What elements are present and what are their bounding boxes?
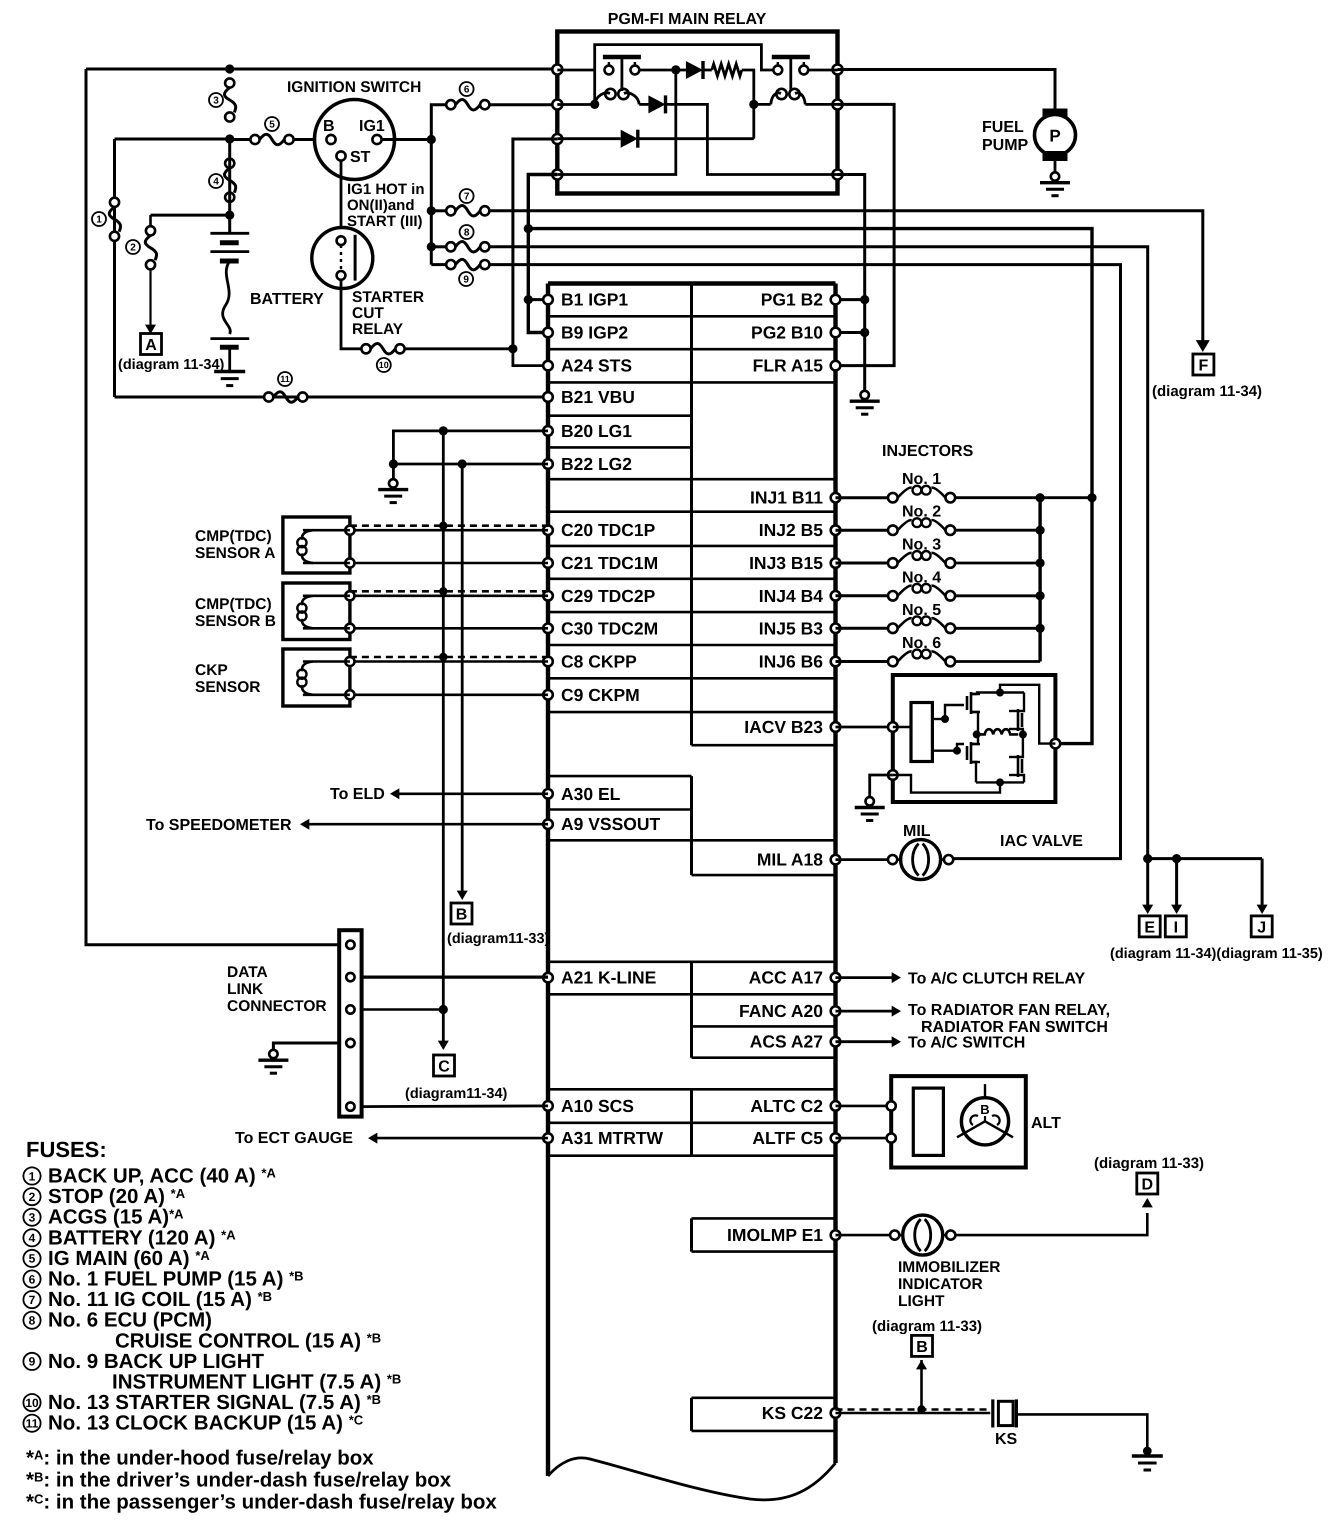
pin ALTC C2 <box>831 1101 841 1111</box>
svg-text:A10 SCS: A10 SCS <box>561 1096 634 1116</box>
svg-text:B: B <box>916 1339 928 1356</box>
svg-text:RADIATOR FAN SWITCH: RADIATOR FAN SWITCH <box>921 1019 1108 1036</box>
svg-text:9: 9 <box>463 275 469 286</box>
svg-text:INDICATOR: INDICATOR <box>898 1276 983 1293</box>
diode D3 <box>557 137 620 140</box>
IAC internal wiring <box>893 726 911 729</box>
svg-text:9: 9 <box>29 1355 36 1369</box>
IAC bridge rails <box>976 691 1024 693</box>
svg-text:No. 9 BACK UP LIGHT: No. 9 BACK UP LIGHT <box>48 1350 264 1373</box>
junction E feed <box>1143 854 1152 863</box>
wire fuse9 to MIL feed <box>490 265 1121 859</box>
IAC winding <box>911 703 932 762</box>
wire sensor signal <box>355 660 549 663</box>
ignition switch <box>315 100 395 180</box>
pin B9 IGP2 <box>543 328 553 338</box>
svg-text:To SPEEDOMETER: To SPEEDOMETER <box>146 817 292 834</box>
svg-text:E: E <box>1144 919 1155 936</box>
fuse 4 BATTERY <box>225 159 234 168</box>
svg-text:A30 EL: A30 EL <box>561 784 621 804</box>
DLC pin <box>346 1039 354 1047</box>
junction ignition feed <box>225 134 234 143</box>
connector B to diagram 11-33 <box>451 903 472 924</box>
svg-text:KS: KS <box>995 1431 1018 1448</box>
svg-text:INJ6 B6: INJ6 B6 <box>759 652 823 672</box>
svg-text:MIL: MIL <box>903 823 931 840</box>
svg-text:INSTRUMENT LIGHT (7.5 A) *B: INSTRUMENT LIGHT (7.5 A) *B <box>112 1371 401 1394</box>
svg-text:No. 13 CLOCK BACKUP (15 A) *C: No. 13 CLOCK BACKUP (15 A) *C <box>48 1412 364 1435</box>
wire DLC pin3 to C branch <box>362 1008 444 1011</box>
vertical fuse column <box>430 140 433 265</box>
relay node left 3 <box>552 134 562 144</box>
node ALTF <box>887 1134 896 1143</box>
svg-text:No. 11 IG COIL (15 A) *B: No. 11 IG COIL (15 A) *B <box>48 1288 272 1311</box>
wire ALTF C5 <box>836 1137 892 1140</box>
pin INJ3 B15 <box>831 558 841 568</box>
svg-text:BATTERY: BATTERY <box>250 291 324 308</box>
fuel pump <box>1044 110 1066 118</box>
svg-text:6: 6 <box>464 85 470 96</box>
junction PG2 <box>860 328 869 337</box>
svg-text:CRUISE CONTROL (15 A) *B: CRUISE CONTROL (15 A) *B <box>115 1329 381 1352</box>
junction PG1 <box>860 295 869 304</box>
wire FANC A20 to radiator fan relay <box>836 1010 897 1013</box>
junction relay top <box>671 65 680 74</box>
wire KS to ground <box>1018 1414 1147 1448</box>
fuse 6 FUEL PUMP <box>431 105 445 140</box>
svg-text:11: 11 <box>26 1417 39 1431</box>
wire KS C22 shield <box>836 1408 991 1411</box>
pin A24 STS <box>543 361 553 371</box>
svg-text:(diagram 11-33): (diagram 11-33) <box>872 1318 982 1335</box>
pin C30 TDC2M <box>543 624 553 634</box>
svg-text:IGNITION SWITCH: IGNITION SWITCH <box>287 79 421 96</box>
svg-text:INJ1 B11: INJ1 B11 <box>750 488 823 508</box>
svg-text:ON(II)and: ON(II)and <box>347 197 415 214</box>
ALT regulator <box>913 1088 943 1155</box>
svg-text:STARTER: STARTER <box>352 289 424 306</box>
junction injector No1 <box>1087 493 1096 502</box>
IAC transistor Q2 <box>966 746 969 760</box>
fuse list item IG MAIN (60 A) <box>23 1250 40 1267</box>
connector A to diagram 11-34 <box>141 334 162 355</box>
svg-text:A21 K-LINE: A21 K-LINE <box>561 968 656 988</box>
junction shield drain <box>439 522 447 530</box>
pin IMOLMP E1 <box>831 1230 841 1240</box>
junction IG1 fuse column <box>427 135 436 144</box>
pin A21 K-LINE <box>543 973 553 983</box>
svg-text:No. 5: No. 5 <box>902 602 941 619</box>
svg-text:(diagram11-34): (diagram11-34) <box>405 1086 508 1102</box>
svg-text:No. 13 STARTER SIGNAL (7.5 A): No. 13 STARTER SIGNAL (7.5 A) *B <box>48 1391 381 1414</box>
junction injector bus <box>1036 526 1045 535</box>
wire resistor to coil 2 <box>742 70 754 139</box>
wire A31 MTRTW to ECT gauge <box>372 1137 548 1140</box>
diode D1 <box>639 103 648 106</box>
ground KS <box>1143 1447 1152 1456</box>
wire fuse5 to ignition B terminal <box>294 138 327 141</box>
wire E arrow <box>1146 859 1149 908</box>
diode D2 <box>676 69 686 72</box>
svg-text:INJ2 B5: INJ2 B5 <box>759 520 823 540</box>
wire top supply rail <box>86 68 557 71</box>
wire KS shield to B <box>920 1360 923 1410</box>
ground fuel pump <box>1054 160 1057 173</box>
fuse list item No. 6 ECU (PCM) <box>23 1312 40 1329</box>
junction battery top <box>225 211 234 220</box>
svg-text:C: C <box>438 1059 450 1076</box>
pin KS C22 <box>831 1408 841 1418</box>
wire A30 EL to ELD <box>394 792 548 795</box>
svg-text:ACC A17: ACC A17 <box>749 968 823 988</box>
battery symbol <box>228 215 231 233</box>
junction injector bus <box>1036 624 1045 633</box>
svg-text:INJ4 B4: INJ4 B4 <box>759 586 823 606</box>
junction A24 feed <box>508 344 517 353</box>
svg-text:PG2 B10: PG2 B10 <box>751 323 823 343</box>
fuse list item No. 11 IG COIL (15 A) <box>23 1291 40 1308</box>
svg-text:A: A <box>145 337 157 354</box>
svg-text:LIGHT: LIGHT <box>898 1293 945 1310</box>
wire ACC A17 to AC clutch relay <box>836 976 897 979</box>
node IACV supply <box>888 770 898 780</box>
wire battery junction to fuse 2 branch <box>151 214 230 217</box>
svg-text:ACGS (15 A)*A: ACGS (15 A)*A <box>48 1206 184 1229</box>
pin INJ5 B3 <box>831 624 841 634</box>
junction fuse8 <box>427 242 436 251</box>
wire lamp to D connector <box>956 1213 1148 1235</box>
fuse list item No. 13 CLOCK BACKUP (15 A) <box>23 1415 40 1432</box>
junction injector bus <box>1036 591 1045 600</box>
IAC transistor Q3 <box>1021 713 1024 727</box>
svg-text:PUMP: PUMP <box>982 137 1029 154</box>
svg-text:B22 LG2: B22 LG2 <box>561 454 632 474</box>
pin INJ4 B4 <box>831 591 841 601</box>
wire D3 output <box>638 137 754 140</box>
wire relay to power ground <box>838 175 865 392</box>
junction I feed <box>1172 854 1181 863</box>
svg-text:C9 CKPM: C9 CKPM <box>561 685 640 705</box>
svg-text:PGM-FI MAIN RELAY: PGM-FI MAIN RELAY <box>608 11 767 28</box>
pin ACC A17 <box>831 973 841 983</box>
svg-text:IG1: IG1 <box>359 118 385 135</box>
injector common bus <box>1038 498 1041 662</box>
relay coil 1 <box>557 103 594 106</box>
pin B21 VBU <box>543 392 553 402</box>
svg-text:No. 4: No. 4 <box>902 569 941 586</box>
fuse 1 BACK UP ACC <box>110 198 119 207</box>
pin B20 LG1 <box>543 426 553 436</box>
PGM-FI main relay box <box>557 32 837 194</box>
fuse 2 STOP <box>149 215 152 226</box>
svg-text:STOP (20 A) *A: STOP (20 A) *A <box>48 1185 186 1208</box>
relay node left 2 <box>552 100 562 110</box>
svg-text:IMMOBILIZER: IMMOBILIZER <box>898 1259 1000 1276</box>
svg-text:IMOLMP E1: IMOLMP E1 <box>727 1225 823 1245</box>
svg-text:3: 3 <box>29 1211 36 1225</box>
svg-text:10: 10 <box>25 1396 39 1410</box>
ground IAC <box>870 775 893 797</box>
node ALTC <box>887 1101 896 1110</box>
connector F to diagram 11-34 <box>1193 354 1214 375</box>
relay node left 4 <box>552 170 562 180</box>
DLC pin <box>346 973 354 981</box>
wire DLC pin2 to A21 K-LINE <box>362 975 548 978</box>
data link connector box <box>339 930 361 1116</box>
svg-text:ACS A27: ACS A27 <box>750 1032 823 1052</box>
svg-text:C29 TDC2P: C29 TDC2P <box>561 586 656 606</box>
svg-text:4: 4 <box>29 1231 36 1245</box>
connector I to diagram 11-34 <box>1165 916 1186 937</box>
pin ALTF C5 <box>831 1133 841 1143</box>
svg-text:MIL A18: MIL A18 <box>757 850 823 870</box>
svg-text:INJ3 B15: INJ3 B15 <box>749 553 823 573</box>
svg-text:(diagram 11-34): (diagram 11-34) <box>118 357 225 373</box>
resistor R1 <box>703 69 712 72</box>
relay inner control wire <box>595 45 774 105</box>
wire IMOLMP E1 <box>836 1234 895 1237</box>
svg-text:*C: in the passenger’s under-d: *C: in the passenger’s under-dash fuse/r… <box>26 1491 497 1514</box>
IAC valve box <box>893 675 1056 802</box>
junction injector bus <box>1036 493 1045 502</box>
IAC transistor Q1 <box>966 696 969 710</box>
connector J to diagram 11-35 <box>1251 916 1272 937</box>
wire relay row3 feed <box>513 139 557 349</box>
svg-text:B9 IGP2: B9 IGP2 <box>561 323 628 343</box>
pin INJ2 B5 <box>831 525 841 535</box>
fuse list item BATTERY (120 A) <box>23 1229 40 1246</box>
junction shield drain <box>439 653 447 661</box>
wire starter cut relay to fuse 10 <box>341 280 362 349</box>
shield drain column to B connector <box>461 464 464 894</box>
svg-text:ALTC C2: ALTC C2 <box>750 1096 823 1116</box>
svg-text:SENSOR: SENSOR <box>195 679 260 696</box>
svg-text:C8 CKPP: C8 CKPP <box>561 652 637 672</box>
fuse 11 CLOCK BACKUP <box>264 392 273 401</box>
svg-text:IG MAIN (60 A) *A: IG MAIN (60 A) *A <box>48 1247 210 1270</box>
junction B1 IGP1 feed <box>524 295 533 304</box>
junction battery feed on top rail <box>225 64 234 73</box>
relay node right 2 <box>833 100 843 110</box>
ground PG1 PG2 <box>861 391 869 399</box>
wire DLC pin4 to ground <box>273 1043 339 1050</box>
fuse 7 IG COIL <box>431 209 445 212</box>
junction LG1 shield column <box>439 426 448 435</box>
wire shield <box>350 524 548 527</box>
svg-text:7: 7 <box>29 1293 36 1307</box>
wire fuse7 to F connector <box>490 211 1203 346</box>
svg-text:B1 IGP1: B1 IGP1 <box>561 290 628 310</box>
fuse list item BACK UP, ACC (40 A) <box>23 1167 40 1184</box>
DLC pin <box>346 1005 354 1013</box>
immobilizer indicator light <box>890 1231 899 1240</box>
svg-text:8: 8 <box>464 228 470 239</box>
svg-text:5: 5 <box>29 1252 36 1266</box>
svg-text:1: 1 <box>29 1169 36 1183</box>
svg-text:INJECTORS: INJECTORS <box>882 443 974 460</box>
svg-text:LINK: LINK <box>227 981 264 998</box>
wire fuse6 to relay <box>490 103 557 106</box>
fuse list item No. 1 FUEL PUMP (15 A) <box>23 1270 40 1287</box>
IAC top feed to right node <box>1000 685 1055 744</box>
connector B lower to diagram 11-33 <box>912 1335 933 1356</box>
wire relay to FLR A15 <box>836 104 895 365</box>
pin A10 SCS <box>543 1101 553 1111</box>
fuse 10 STARTER SIGNAL <box>361 344 370 353</box>
wire fuse8 to E connector <box>490 247 1148 859</box>
fuse list item No. 13 STARTER SIGNAL (7.5 A) <box>23 1394 40 1411</box>
relay contact 1 <box>557 69 596 72</box>
pin FANC A20 <box>831 1006 841 1016</box>
svg-text:BATTERY (120 A) *A: BATTERY (120 A) *A <box>48 1226 236 1249</box>
svg-text:(diagram11-33): (diagram11-33) <box>447 931 550 947</box>
junction fuse7 <box>427 206 436 215</box>
relay node right 1 <box>833 65 843 75</box>
connector E to diagram 11-34 <box>1139 916 1160 937</box>
connector middle divider <box>690 284 693 746</box>
pin C21 TDC1M <box>543 558 553 568</box>
svg-text:IAC VALVE: IAC VALVE <box>1000 833 1083 850</box>
DLC pin <box>346 1102 354 1110</box>
svg-text:B20 LG1: B20 LG1 <box>561 421 632 441</box>
svg-text:No. 2: No. 2 <box>902 504 941 521</box>
wire to inner rail <box>115 138 230 141</box>
wire fuse2 to connector A arrow <box>149 269 151 331</box>
wire sensor signal <box>355 594 549 597</box>
wire ST to starter cut relay <box>340 161 343 228</box>
svg-text:CUT: CUT <box>352 305 384 322</box>
svg-text:IG1 HOT in: IG1 HOT in <box>347 181 425 198</box>
pin C29 TDC2P <box>543 591 553 601</box>
ground LG <box>392 464 395 479</box>
svg-text:5: 5 <box>269 120 275 131</box>
fuse list item STOP (20 A) <box>23 1188 40 1205</box>
wire J arrow <box>1261 859 1264 908</box>
svg-text:IACV B23: IACV B23 <box>744 717 823 737</box>
pin B22 LG2 <box>543 459 553 469</box>
knock sensor KS <box>991 1399 994 1427</box>
connector D to diagram 11-33 <box>1137 1173 1158 1194</box>
svg-text:To ELD: To ELD <box>330 786 385 803</box>
junction shield drain <box>439 587 447 595</box>
svg-text:(diagram 11-34)(diagram 11-35): (diagram 11-34)(diagram 11-35) <box>1110 946 1323 962</box>
wire ALTC C2 <box>836 1105 892 1108</box>
fuse 9 BACK UP LIGHT <box>431 263 445 266</box>
wire to I and J <box>1148 857 1262 860</box>
svg-text:(diagram 11-34): (diagram 11-34) <box>1152 383 1262 400</box>
svg-text:CMP(TDC): CMP(TDC) <box>195 596 272 613</box>
sensor CKP <box>283 649 350 706</box>
sensor CMP TDC sensor B <box>283 583 350 640</box>
relay coil 2 <box>771 93 781 105</box>
wire shield <box>350 656 548 659</box>
svg-text:CMP(TDC): CMP(TDC) <box>195 528 272 545</box>
svg-text:A9 VSSOUT: A9 VSSOUT <box>561 814 660 834</box>
svg-text:(diagram 11-33): (diagram 11-33) <box>1094 1155 1204 1172</box>
svg-text:ALTF C5: ALTF C5 <box>752 1128 823 1148</box>
sensor CMP TDC sensor A <box>283 517 350 573</box>
svg-text:No. 6 ECU (PCM): No. 6 ECU (PCM) <box>48 1309 212 1332</box>
pin C9 CKPM <box>543 690 553 700</box>
svg-text:11: 11 <box>280 374 290 384</box>
svg-text:I: I <box>1174 919 1178 936</box>
svg-text:No. 6: No. 6 <box>902 635 941 652</box>
svg-text:BACK UP, ACC (40 A) *A: BACK UP, ACC (40 A) *A <box>48 1165 276 1188</box>
pin FLR A15 <box>831 361 841 371</box>
wire KS C22 <box>836 1412 991 1415</box>
pin C20 TDC1P <box>543 525 553 535</box>
pin IACV B23 <box>831 722 841 732</box>
fuse list item No. 9 BACK UP LIGHT <box>23 1353 40 1370</box>
inner rail vertical with fuse 1 <box>113 139 116 397</box>
wire A9 VSSOUT to speedometer <box>304 823 548 826</box>
fuse list item ACGS (15 A) <box>23 1209 40 1226</box>
svg-text:B: B <box>980 1102 989 1117</box>
wire left outer frame to data link connector <box>86 69 339 945</box>
ECM PCM connector box <box>548 281 836 285</box>
svg-text:ALT: ALT <box>1031 1115 1061 1132</box>
pin A9 VSSOUT <box>543 819 553 829</box>
pin MIL A18 <box>831 855 841 865</box>
svg-text:2: 2 <box>130 243 136 254</box>
connector C to diagram 11-34 <box>434 1055 455 1076</box>
svg-text:8: 8 <box>29 1314 36 1328</box>
relay contact 2 <box>772 55 810 60</box>
svg-text:4: 4 <box>213 177 219 188</box>
svg-text:DATA: DATA <box>227 964 268 981</box>
svg-text:C21 TDC1M: C21 TDC1M <box>561 553 658 573</box>
svg-text:INJ5 B3: INJ5 B3 <box>759 618 823 638</box>
relay node left 1 <box>552 65 562 75</box>
svg-text:*B: in the driver’s under-dash: *B: in the driver’s under-dash fuse/rela… <box>26 1469 452 1492</box>
svg-text:To A/C SWITCH: To A/C SWITCH <box>908 1035 1025 1052</box>
fuse 5 IG MAIN <box>230 138 252 141</box>
bottom rail to B21 VBU with fuse 11 <box>115 396 549 399</box>
svg-text:F: F <box>1199 358 1209 375</box>
junction LG ground <box>389 459 398 468</box>
svg-text:J: J <box>1257 919 1266 936</box>
svg-text:FLR A15: FLR A15 <box>753 356 824 376</box>
wire fuse10 to A24 STS junction <box>405 347 513 350</box>
svg-text:START (III): START (III) <box>347 213 423 230</box>
junction LG2 shield column <box>458 459 467 468</box>
svg-text:C30 TDC2M: C30 TDC2M <box>561 618 658 638</box>
svg-text:FUSES:: FUSES: <box>26 1137 107 1162</box>
svg-text:*A: in the under-hood fuse/rel: *A: in the under-hood fuse/relay box <box>26 1447 374 1470</box>
svg-text:To A/C CLUTCH RELAY: To A/C CLUTCH RELAY <box>908 971 1086 988</box>
connector cell lines <box>548 315 836 318</box>
svg-text:D: D <box>1142 1177 1154 1194</box>
starter cut relay <box>312 228 373 289</box>
DLC pin <box>346 941 354 949</box>
junction injector feed <box>524 224 533 233</box>
connector torn bottom edge <box>548 1458 836 1500</box>
svg-text:1: 1 <box>96 215 102 226</box>
svg-text:A24 STS: A24 STS <box>561 356 632 376</box>
MIL lamp <box>836 858 893 861</box>
wire cross link <box>557 70 676 175</box>
wire sensor signal <box>355 529 549 532</box>
IAC motor winding <box>973 730 981 738</box>
pin INJ1 B11 <box>831 493 841 503</box>
node IACV right <box>1051 739 1061 749</box>
IAC winding to transistors <box>971 712 978 734</box>
svg-text:B21 VBU: B21 VBU <box>561 387 635 407</box>
wire injector No1 to feed <box>1040 496 1092 499</box>
ground battery <box>228 347 231 371</box>
svg-text:A31 MTRTW: A31 MTRTW <box>561 1128 664 1148</box>
pin ACS A27 <box>831 1037 841 1047</box>
